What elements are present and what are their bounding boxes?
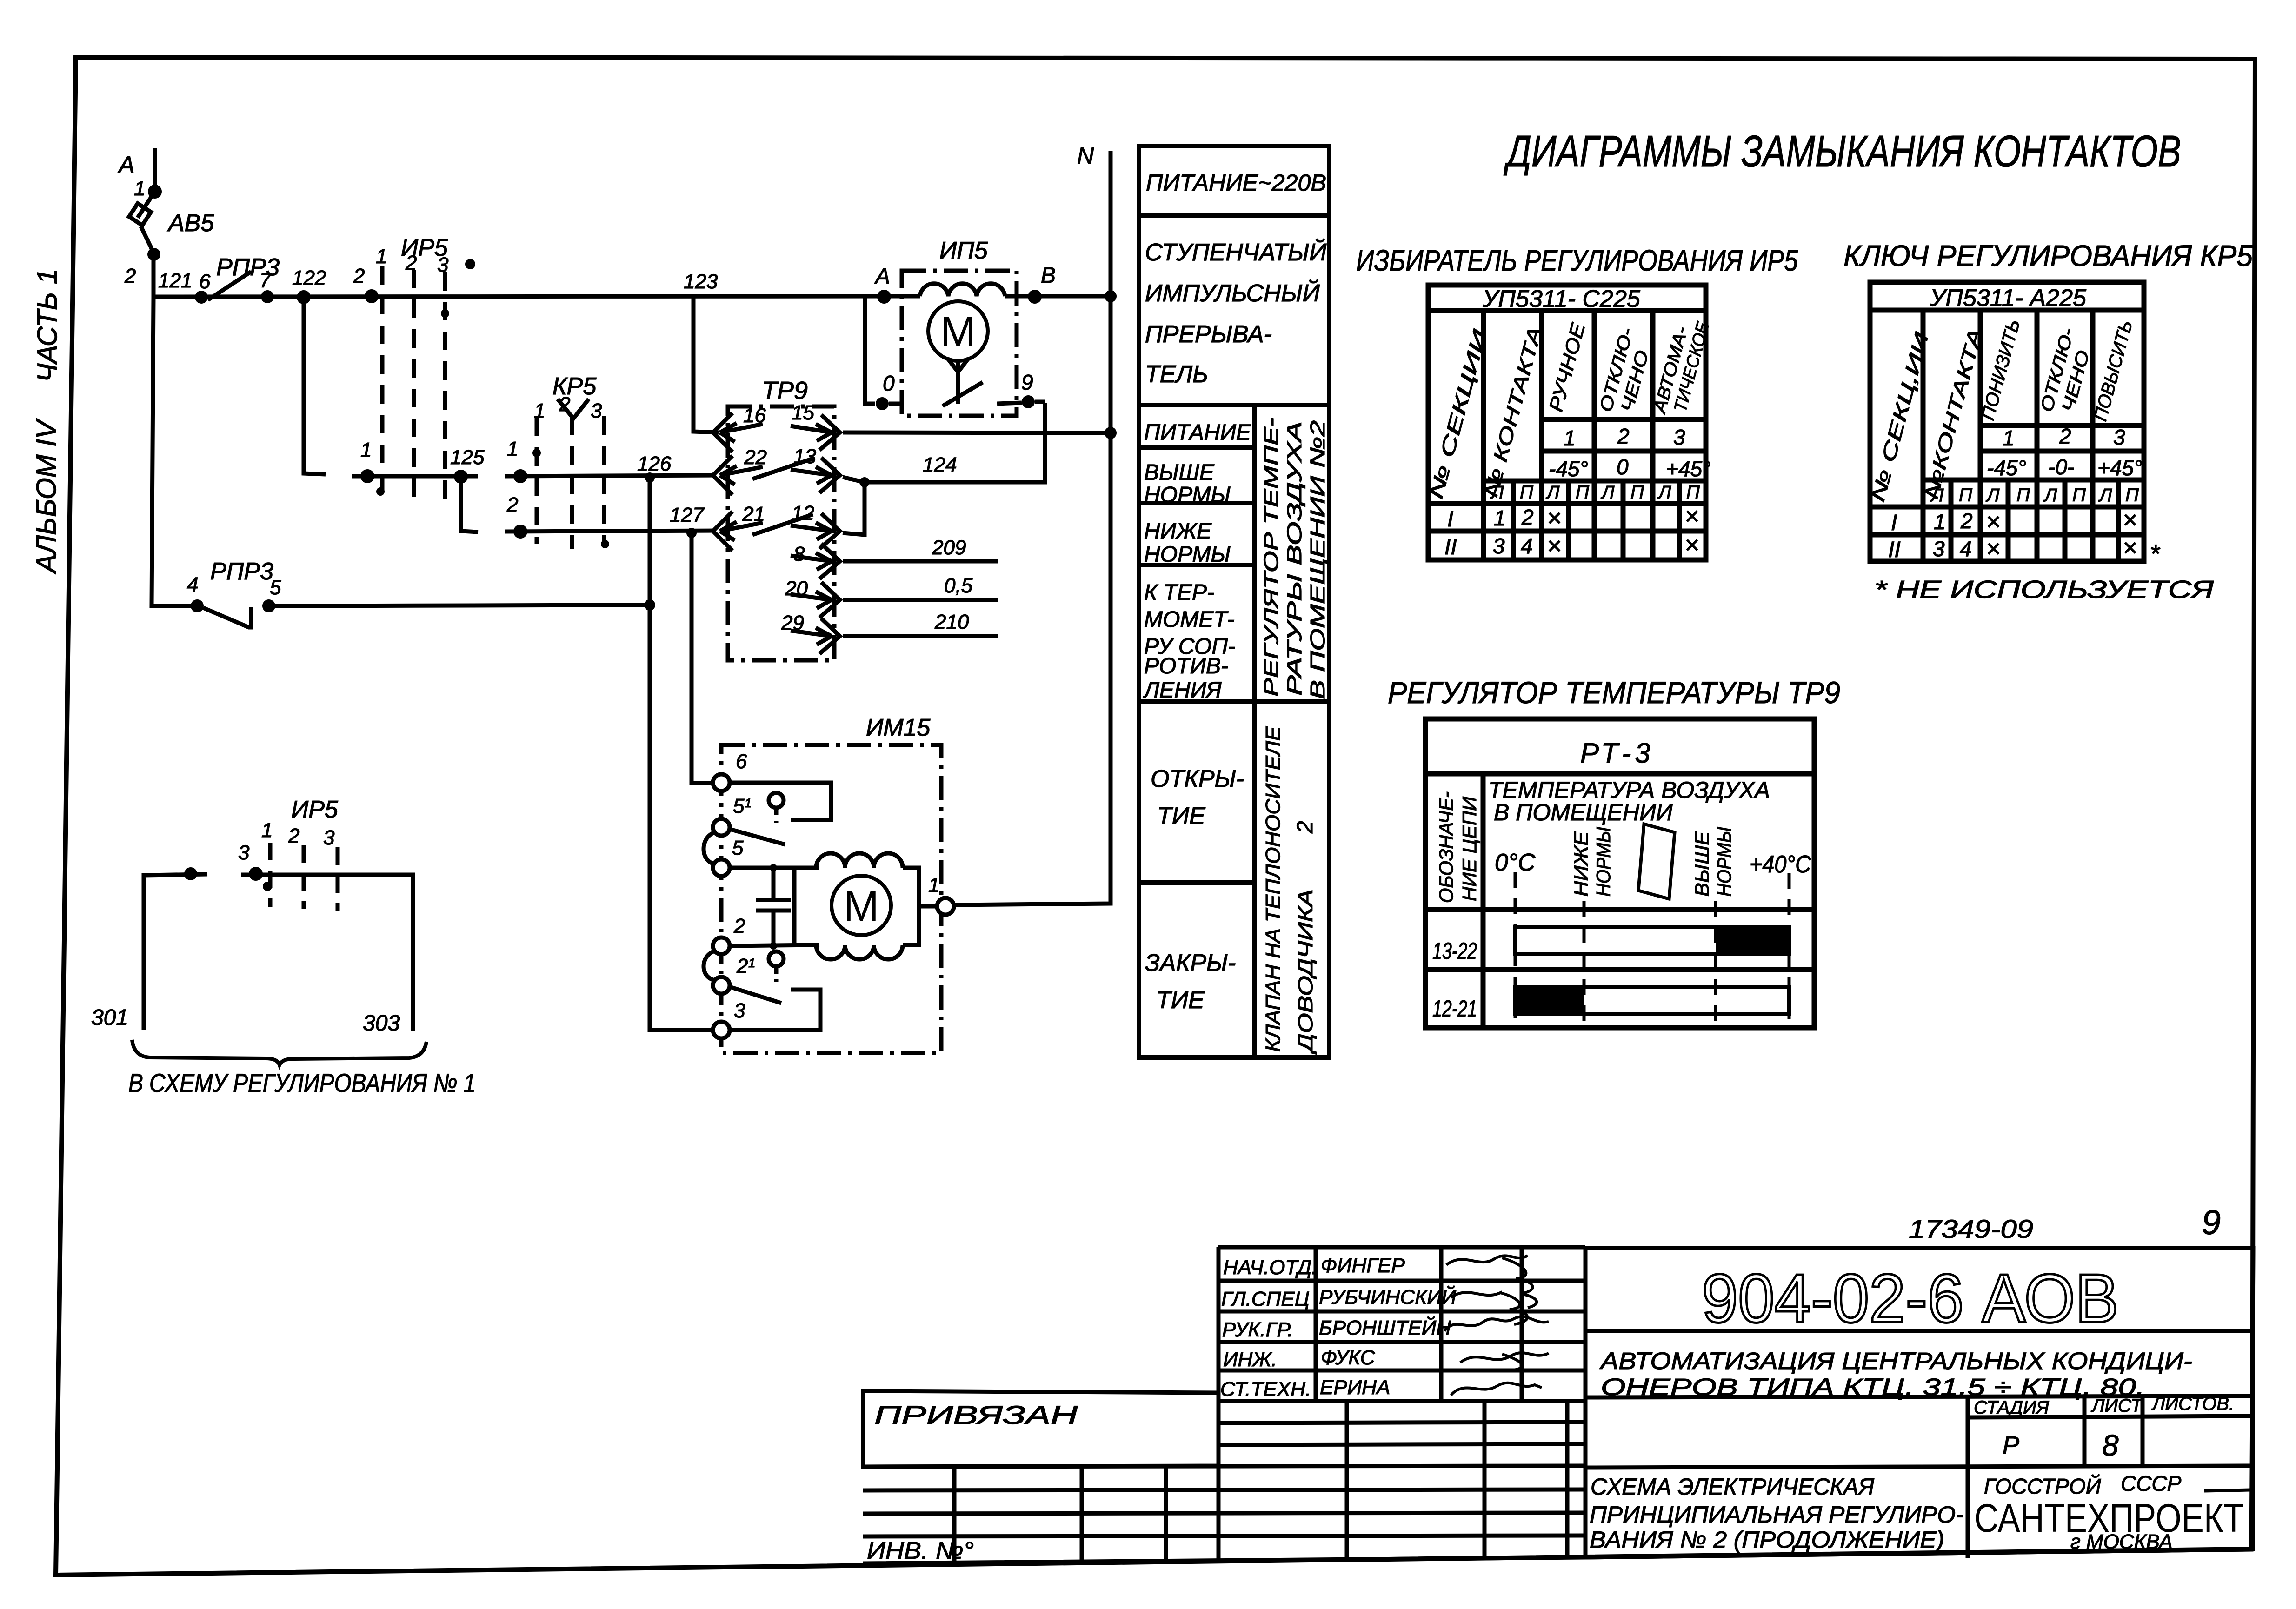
Стадия header border xyxy=(1968,1416,2252,1417)
ТР9 contact 15 arrow xyxy=(791,424,832,441)
row border under К термометру xyxy=(1139,699,1329,704)
ТР9 contact 21 arrow xyxy=(720,522,763,540)
svg-text:1: 1 xyxy=(1934,510,1946,534)
wire 9 stub xyxy=(997,402,1045,404)
wire 124 xyxy=(843,403,1045,482)
svg-text:ГОССТРОЙ: ГОССТРОЙ xyxy=(1984,1474,2101,1498)
svg-text:2: 2 xyxy=(405,252,417,274)
svg-text:АВТОМАТИЗАЦИЯ ЦЕНТРАЛЬНЫХ КО: АВТОМАТИЗАЦИЯ ЦЕНТРАЛЬНЫХ КОНДИЦИ- xyxy=(1599,1348,2192,1374)
svg-text:×: × xyxy=(1684,502,1699,530)
svg-text:РАТУРЫ ВОЗДУХА: РАТУРЫ ВОЗДУХА xyxy=(1283,421,1306,696)
svg-text:2: 2 xyxy=(733,915,745,937)
capacitor C xyxy=(756,898,791,902)
svg-text:ВЫШЕ: ВЫШЕ xyxy=(1691,831,1713,897)
terminal 5 xyxy=(713,859,730,876)
svg-text:1: 1 xyxy=(1564,426,1576,450)
svg-text:Л: Л xyxy=(2098,485,2112,505)
svg-text:М: М xyxy=(940,308,976,356)
terminal 6 xyxy=(713,774,730,791)
svg-text:II: II xyxy=(1444,535,1457,559)
table РТ-3 frame xyxy=(1425,719,1814,1028)
svg-text:РОТИВ-: РОТИВ- xyxy=(1144,654,1228,678)
wire 12 up to 124 xyxy=(843,482,865,535)
svg-text:8: 8 xyxy=(2102,1429,2119,1462)
svg-text:125: 125 xyxy=(450,446,485,469)
row border under Питание xyxy=(1139,445,1254,450)
row border under Ступенчатый xyxy=(1139,403,1329,407)
svg-text:210: 210 xyxy=(934,611,969,633)
svg-text:127: 127 xyxy=(670,504,705,526)
svg-text:В ПОМЕЩЕНИИ №2: В ПОМЕЩЕНИИ №2 xyxy=(1306,420,1329,699)
svg-text:2: 2 xyxy=(559,393,570,416)
svg-text:3: 3 xyxy=(734,999,745,1022)
svg-text:ИМПУЛЬСНЫЙ: ИМПУЛЬСНЫЙ xyxy=(1145,279,1320,307)
wire 5 to V1 xyxy=(274,605,650,606)
scale dashed line ниже xyxy=(1583,901,1586,1022)
terminal 21 xyxy=(713,977,730,994)
svg-text:АЛЬБОМ IV: АЛЬБОМ IV xyxy=(31,418,62,574)
wire left drop to РПР3 4 xyxy=(152,298,191,606)
svg-text:×: × xyxy=(1547,504,1562,532)
wire 125 drop xyxy=(461,477,478,532)
svg-text:ПИТАНИЕ~220В: ПИТАНИЕ~220В xyxy=(1146,170,1326,196)
svg-text:ОБОЗНАЧЕ-: ОБОЗНАЧЕ- xyxy=(1435,791,1457,903)
svg-text:СТУПЕНЧАТЫЙ: СТУПЕНЧАТЫЙ xyxy=(1145,239,1327,266)
svg-text:5¹: 5¹ xyxy=(733,795,751,818)
svg-text:13: 13 xyxy=(793,445,816,468)
svg-text:5: 5 xyxy=(732,837,744,859)
svg-text:РТ-3: РТ-3 xyxy=(1580,738,1654,769)
divider left of Стадия table xyxy=(1966,1397,1970,1558)
svg-text:×: × xyxy=(1547,532,1562,560)
svg-text:НИЖЕ: НИЖЕ xyxy=(1570,831,1592,897)
svg-text:0: 0 xyxy=(1617,455,1629,479)
svg-text:ЛИСТОВ.: ЛИСТОВ. xyxy=(2151,1394,2234,1414)
svg-text:П: П xyxy=(2125,485,2139,505)
svg-text:ТИЕ: ТИЕ xyxy=(1156,987,1205,1014)
svg-text:КЛЮЧ РЕГУЛИРОВАНИЯ КР5: КЛЮЧ РЕГУЛИРОВАНИЯ КР5 xyxy=(1843,239,2253,273)
wire 303 loop xyxy=(241,875,413,1031)
svg-text:126: 126 xyxy=(637,452,672,475)
svg-text:ТР9: ТР9 xyxy=(762,377,808,405)
wire 15 to N xyxy=(843,432,1111,433)
svg-text:ЗАКРЫ-: ЗАКРЫ- xyxy=(1145,950,1236,977)
svg-text:I: I xyxy=(1447,507,1453,532)
svg-text:БРОНШТЕЙН: БРОНШТЕЙН xyxy=(1319,1316,1451,1339)
svg-text:904-02-6 АОВ: 904-02-6 АОВ xyxy=(1702,1260,2119,1337)
row border under Открытие xyxy=(1139,880,1254,885)
svg-text:НОРМЫ: НОРМЫ xyxy=(1713,827,1735,897)
ИР5 section 2 contact dot 1 xyxy=(360,469,374,483)
staff row borders xyxy=(1218,1279,1585,1283)
lower limit switch fixed contact xyxy=(730,990,820,1030)
upper limit switch fixed contact xyxy=(730,783,831,820)
staff table frame xyxy=(1218,1245,1585,1250)
svg-text:2¹: 2¹ xyxy=(736,955,755,977)
border under 904-02-6 xyxy=(1585,1329,2252,1333)
svg-text:3: 3 xyxy=(591,399,602,422)
junction dot V1 x РПР3 row xyxy=(644,599,655,611)
svg-text:МОМЕТ-: МОМЕТ- xyxy=(1144,607,1235,632)
svg-text:2: 2 xyxy=(2059,424,2071,448)
selector ИР5 contact dot 3 xyxy=(249,867,263,881)
svg-text:ЛЕНИЯ: ЛЕНИЯ xyxy=(1143,678,1222,703)
wire winding to terminal 1 xyxy=(903,868,937,906)
signature squiggle 1 xyxy=(1446,1256,1537,1308)
svg-text:Л: Л xyxy=(1930,485,1944,505)
lower cam pin xyxy=(769,951,784,966)
svg-text:ДИАГРАММЫ ЗАМЫКАНИЯ КОНТАКТО: ДИАГРАММЫ ЗАМЫКАНИЯ КОНТАКТОВ xyxy=(1504,126,2181,176)
scale dashed line 0C xyxy=(1514,872,1517,1022)
svg-text:НОРМЫ: НОРМЫ xyxy=(1144,542,1231,567)
ИП5 centrifugal switch xyxy=(947,358,969,404)
svg-text:П: П xyxy=(1686,482,1700,503)
Стадия col dividers xyxy=(2083,1397,2087,1466)
svg-text:ГЛ.СПЕЦ: ГЛ.СПЕЦ xyxy=(1221,1288,1310,1310)
actuator ИМ15 box xyxy=(721,745,941,1053)
ТР9 contact 22-13 blade xyxy=(752,459,813,479)
tick dot on line 1 xyxy=(263,882,272,891)
svg-text:ИР5: ИР5 xyxy=(291,796,339,823)
svg-text:Л: Л xyxy=(1490,482,1504,503)
svg-text:1: 1 xyxy=(1494,506,1506,530)
ТР9 contact 21-12 blade xyxy=(752,514,813,535)
svg-text:2: 2 xyxy=(353,265,365,287)
ИР5 position line 2 xyxy=(412,270,416,499)
row border under Выше нормы xyxy=(1139,501,1254,505)
svg-text:2: 2 xyxy=(1293,821,1318,834)
selector ИР5 section 1 contact dot 2 xyxy=(365,289,379,303)
lower limit switch blade xyxy=(730,987,781,1003)
svg-text:122: 122 xyxy=(292,266,326,289)
title block main box xyxy=(1585,1248,2253,1557)
svg-text:ПРЕРЫВА-: ПРЕРЫВА- xyxy=(1145,321,1272,348)
svg-text:НОРМЫ: НОРМЫ xyxy=(1144,483,1231,507)
svg-text:РЕГУЛЯТОР ТЕМПЕРАТУРЫ ТР9: РЕГУЛЯТОР ТЕМПЕРАТУРЫ ТР9 xyxy=(1388,675,1840,710)
relay contact РПР3 6-7 blade xyxy=(208,272,251,300)
ТР9 contact 29 arrow xyxy=(791,628,832,645)
svg-text:×: × xyxy=(1986,508,2001,536)
svg-text:К ТЕР-: К ТЕР- xyxy=(1144,580,1214,605)
junction dot 126 xyxy=(645,472,655,483)
svg-text:-0-: -0- xyxy=(2048,455,2074,479)
svg-text:303: 303 xyxy=(363,1011,400,1036)
key КР5 contact dot 2 xyxy=(513,525,527,539)
svg-text:М: М xyxy=(844,883,879,930)
interruptor ИП5 box xyxy=(902,271,1017,416)
junction dot 127 xyxy=(686,528,697,538)
svg-text:4: 4 xyxy=(1521,534,1533,558)
terminal 2 xyxy=(713,937,730,954)
svg-text:4: 4 xyxy=(187,573,198,596)
wire 126 row xyxy=(505,475,716,476)
svg-text:301: 301 xyxy=(91,1005,128,1030)
svg-text:Л: Л xyxy=(1545,482,1560,503)
damper parallelogram xyxy=(1638,824,1675,899)
svg-text:НАЧ.ОТД.: НАЧ.ОТД. xyxy=(1223,1256,1317,1279)
svg-text:ФИНГЕР: ФИНГЕР xyxy=(1321,1254,1405,1277)
svg-text:22: 22 xyxy=(744,446,767,469)
junction dot 2 xyxy=(147,248,160,261)
signature squiggle 2 xyxy=(1451,1292,1527,1324)
junction dot left xyxy=(184,867,197,880)
svg-text:ЧАСТЬ 1: ЧАСТЬ 1 xyxy=(32,269,63,382)
svg-text:N: N xyxy=(1077,143,1094,169)
svg-text:3: 3 xyxy=(1673,425,1685,449)
neutral N line xyxy=(954,151,1111,905)
svg-text:ПРИВЯЗАН: ПРИВЯЗАН xyxy=(874,1400,1078,1429)
row border under Питание 220 xyxy=(1139,213,1329,218)
svg-text:9: 9 xyxy=(2202,1203,2221,1242)
terminal dot 0 xyxy=(876,397,889,410)
motor M of ИМ15 upper winding xyxy=(816,853,903,868)
svg-text:×: × xyxy=(2123,534,2137,562)
svg-text:Р: Р xyxy=(2003,1431,2019,1459)
wire 209 xyxy=(843,559,998,564)
svg-text:ДОВОДЧИКА: ДОВОДЧИКА xyxy=(1294,889,1317,1055)
Привязан lower dividers xyxy=(952,1467,957,1562)
scale dashed line выше xyxy=(1714,901,1717,1022)
svg-text:3: 3 xyxy=(437,253,449,276)
upper cam pin xyxy=(769,793,784,808)
svg-text:3: 3 xyxy=(238,841,250,864)
svg-text:+40°С: +40°С xyxy=(1750,851,1811,878)
terminal 3 xyxy=(713,1022,730,1038)
svg-text:ИЗБИРАТЕЛЬ РЕГУЛИРОВАНИЯ ИР5: ИЗБИРАТЕЛЬ РЕГУЛИРОВАНИЯ ИР5 xyxy=(1356,244,1798,277)
РТ-3 title row border xyxy=(1425,771,1814,777)
ТР9 contact 16 arrow xyxy=(720,423,763,442)
svg-text:УП5311- А225: УП5311- А225 xyxy=(1930,285,2087,312)
svg-text:0: 0 xyxy=(883,371,895,395)
svg-text:3: 3 xyxy=(323,826,335,849)
svg-text:-45°: -45° xyxy=(1987,456,2026,480)
contact bar 12-21 closed part xyxy=(1515,987,1584,1014)
КР5 position line 2 xyxy=(570,416,574,549)
lower rows right section xyxy=(1218,1422,1585,1423)
svg-text:7: 7 xyxy=(260,269,272,292)
svg-text:ОНЕРОВ ТИПА КТЦ, 31: ОНЕРОВ ТИПА КТЦ, 31,5 ÷ КТЦ, 80. xyxy=(1601,1374,2145,1400)
svg-text:П: П xyxy=(1630,482,1644,503)
svg-text:5: 5 xyxy=(270,576,281,599)
terminal dot B xyxy=(1028,290,1042,304)
svg-text:12: 12 xyxy=(792,502,814,525)
svg-text:8: 8 xyxy=(793,543,805,565)
wire 127 row xyxy=(505,531,716,532)
ИР5 position line 3 xyxy=(443,272,447,505)
svg-text:0,5: 0,5 xyxy=(944,574,973,597)
contact dot 6 of РПР3 xyxy=(195,291,208,304)
wire 2 row xyxy=(730,945,819,946)
svg-text:×: × xyxy=(2123,506,2137,534)
relay contact РПР3 4-5 blade xyxy=(203,607,251,627)
key КР5 contact dot 1 xyxy=(513,469,527,483)
svg-text:124: 124 xyxy=(923,453,957,476)
table УП5311-А225 frame xyxy=(1870,282,2144,561)
terminal dot 9 xyxy=(1022,395,1035,408)
terminal 5' xyxy=(713,819,730,836)
contact bar 12-21 outline xyxy=(1515,987,1789,1014)
svg-text:КЛАПАН НА ТЕПЛОНОСИТЕЛЕ: КЛАПАН НА ТЕПЛОНОСИТЕЛЕ xyxy=(1262,726,1284,1052)
node A phase input xyxy=(153,148,157,186)
svg-text:-45°: -45° xyxy=(1549,457,1588,481)
scale dashed line +40C xyxy=(1788,873,1791,1022)
regulator ТР9 box xyxy=(728,406,834,660)
jumper 5'-5 xyxy=(704,832,715,864)
svg-text:1: 1 xyxy=(360,439,372,461)
svg-text:+45°: +45° xyxy=(2097,456,2142,480)
svg-text:3: 3 xyxy=(1493,534,1505,558)
svg-text:I: I xyxy=(1891,511,1897,535)
svg-text:1: 1 xyxy=(376,245,387,268)
svg-text:2: 2 xyxy=(288,824,299,847)
header row border xyxy=(1425,907,1814,912)
svg-text:ТИЕ: ТИЕ xyxy=(1157,803,1206,830)
svg-text:П: П xyxy=(1520,482,1534,503)
svg-text:П: П xyxy=(2016,485,2030,505)
svg-text:ВАНИЯ № 2 (ПРОДОЛЖЕНИЕ): ВАНИЯ № 2 (ПРОДОЛЖЕНИЕ) xyxy=(1590,1527,1944,1553)
svg-text:20: 20 xyxy=(785,577,808,600)
svg-text:ТЕЛЬ: ТЕЛЬ xyxy=(1145,361,1208,388)
svg-text:2: 2 xyxy=(506,493,518,516)
staff col dividers xyxy=(1314,1247,1318,1401)
wire bus to ИП5 terminal A xyxy=(877,290,891,304)
svg-text:1: 1 xyxy=(928,874,939,897)
junction dot 125 xyxy=(454,470,468,484)
КР5 tick dot line 1 xyxy=(532,449,541,457)
jumper 2-21 xyxy=(704,951,715,980)
ТР9 contact 22 arrow xyxy=(720,466,763,485)
wire 5 row xyxy=(730,866,819,870)
svg-text:+45°: +45° xyxy=(1666,457,1710,481)
ИР5 scheme1 position line 2 xyxy=(302,845,306,909)
ИР5 aux dot right of 3 xyxy=(465,259,475,269)
column divider xyxy=(1252,405,1257,1057)
ТР9 contact 13 arrow xyxy=(791,467,832,484)
svg-text:1: 1 xyxy=(134,177,145,200)
svg-text:2: 2 xyxy=(124,265,136,287)
dash after СССР xyxy=(2204,1490,2250,1491)
КР5 tick dot line 3 xyxy=(601,540,609,548)
svg-text:6: 6 xyxy=(736,750,747,773)
svg-text:Л: Л xyxy=(1657,482,1671,503)
ИР5 scheme1 position line 1 xyxy=(268,843,273,907)
svg-text:×: × xyxy=(1684,531,1699,559)
svg-text:*: * xyxy=(2150,539,2161,568)
motor M circle ИМ15 xyxy=(832,876,891,935)
ТР9 contact 8 arrow xyxy=(791,553,832,570)
wire 125 row xyxy=(352,474,478,479)
border under Автоматизация xyxy=(1585,1396,2252,1397)
svg-text:3: 3 xyxy=(2113,425,2125,449)
svg-text:Л: Л xyxy=(1600,482,1615,503)
svg-text:НИЖЕ: НИЖЕ xyxy=(1144,519,1212,544)
legend table frame xyxy=(1139,146,1329,1057)
svg-text:3: 3 xyxy=(1933,537,1945,561)
motor M of ИМ15 lower winding xyxy=(816,945,903,959)
КР5 position line 3 xyxy=(602,416,606,544)
wire 210 xyxy=(843,634,998,638)
svg-text:17349-09: 17349-09 xyxy=(1909,1214,2033,1243)
svg-text:1: 1 xyxy=(261,819,273,842)
ТР9 contact 20 arrow xyxy=(791,592,832,608)
contact bar 13-22 outline xyxy=(1515,927,1789,954)
svg-text:СХЕМА ЭЛЕКТРИЧЕСКАЯ: СХЕМА ЭЛЕКТРИЧЕСКАЯ xyxy=(1591,1474,1875,1500)
bottom line of title block xyxy=(863,1549,2251,1563)
wire A down to 0 xyxy=(865,296,875,404)
svg-text:СТ.ТЕХН.: СТ.ТЕХН. xyxy=(1220,1378,1311,1401)
svg-text:Л: Л xyxy=(2043,485,2057,505)
junction dot N x 15 xyxy=(1105,427,1117,439)
contact dot 7 xyxy=(261,290,274,303)
motor M of ИП5 xyxy=(928,301,988,361)
ИР5 tick dot on line 3 xyxy=(441,309,449,318)
svg-text:В: В xyxy=(1041,263,1056,288)
svg-text:1: 1 xyxy=(534,399,545,422)
svg-text:Л: Л xyxy=(1985,485,2000,505)
svg-text:0°С: 0°С xyxy=(1495,849,1536,876)
wire 301 loop xyxy=(144,874,207,1030)
svg-text:29: 29 xyxy=(781,612,804,634)
svg-text:123: 123 xyxy=(684,270,718,293)
motor frame left edge xyxy=(792,868,797,945)
contact dot 4 xyxy=(191,599,204,612)
svg-text:4: 4 xyxy=(1960,537,1972,561)
contact bar 13-22 closed part xyxy=(1716,927,1789,954)
svg-text:ИП5: ИП5 xyxy=(939,237,988,264)
svg-text:РУК.ГР.: РУК.ГР. xyxy=(1222,1318,1293,1341)
junction dot 122 xyxy=(297,290,311,304)
column divider xyxy=(1481,774,1486,1028)
wire 2 to bus xyxy=(152,254,156,298)
upper limit switch blade xyxy=(730,829,785,844)
svg-text:П: П xyxy=(1576,482,1590,503)
svg-text:21: 21 xyxy=(742,503,765,525)
КР5 movable contact tick xyxy=(558,399,589,419)
svg-text:УП5311- С225: УП5311- С225 xyxy=(1482,286,1641,312)
lower section col dividers xyxy=(1345,1401,1349,1560)
svg-text:А: А xyxy=(874,264,890,289)
svg-text:* НЕ ИСПОЛЬЗУЕТСЯ: * НЕ ИСПОЛЬЗУЕТСЯ xyxy=(1874,576,2214,604)
svg-text:209: 209 xyxy=(932,536,966,559)
svg-text:П: П xyxy=(1959,485,1973,505)
svg-text:ЛИСТ: ЛИСТ xyxy=(2090,1396,2143,1416)
svg-text:2: 2 xyxy=(1960,509,1973,533)
svg-text:РПР3: РПР3 xyxy=(210,558,273,585)
svg-text:13-22: 13-22 xyxy=(1432,938,1477,964)
ИП5 stator coil xyxy=(920,284,1005,296)
svg-text:1: 1 xyxy=(507,438,518,460)
svg-text:ФУКС: ФУКС xyxy=(1321,1346,1376,1369)
svg-text:В ПОМЕЩЕНИИ: В ПОМЕЩЕНИИ xyxy=(1494,799,1673,825)
ИР5 position line 1 xyxy=(380,266,385,494)
svg-text:16: 16 xyxy=(743,404,766,427)
svg-text:ПИТАНИЕ: ПИТАНИЕ xyxy=(1144,420,1251,445)
wire 123 drop to ТР9 xyxy=(693,296,719,432)
svg-text:×: × xyxy=(1986,535,2001,563)
svg-text:РУБЧИНСКИЙ: РУБЧИНСКИЙ xyxy=(1319,1285,1457,1309)
brace to scheme 1 xyxy=(132,1040,426,1065)
ИР5 tick dot on line 1 low xyxy=(376,487,385,496)
wire 0,5 xyxy=(843,598,998,602)
wire V2 127 down to ИМ15 terminal 6 xyxy=(692,533,713,783)
junction dot N x B xyxy=(1105,290,1117,302)
svg-text:АВ5: АВ5 xyxy=(167,210,214,237)
svg-text:г МОСКВА: г МОСКВА xyxy=(2070,1530,2173,1553)
svg-text:РЕГУЛЯТОР ТЕМПЕ-: РЕГУЛЯТОР ТЕМПЕ- xyxy=(1260,418,1283,697)
Привязан box xyxy=(863,1391,1218,1467)
breaker AB5 xyxy=(138,192,155,218)
wire 121 top bus xyxy=(153,296,920,297)
